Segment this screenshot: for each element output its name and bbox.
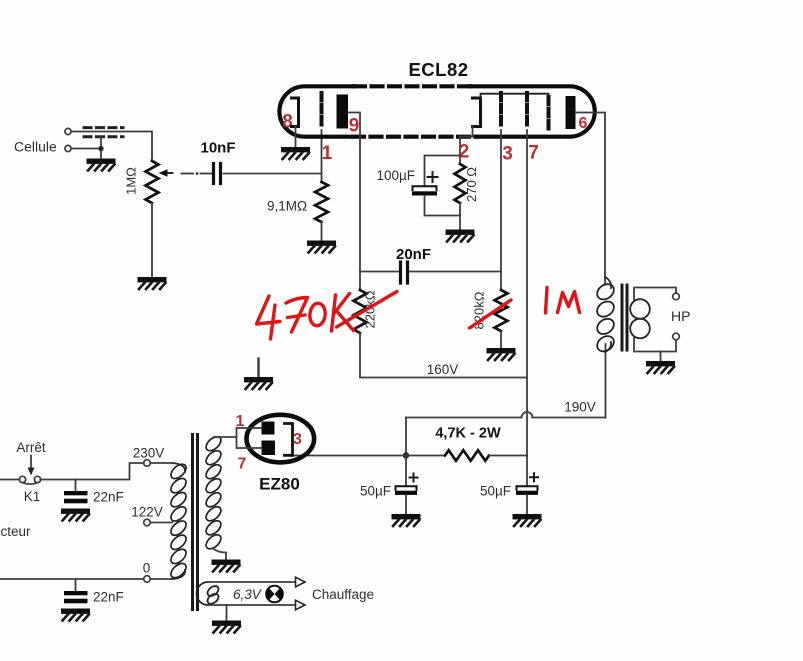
pentode grid g1 dashed [499,93,503,129]
resistor 9,1M zigzag [315,182,328,222]
svg-text:100µF: 100µF [377,168,416,183]
svg-text:9,1MΩ: 9,1MΩ [267,199,307,214]
wire 50uF left to ground [405,495,407,514]
wire pin6 anode lead [576,113,606,285]
svg-text:8: 8 [282,112,293,133]
wire 0 tap to coil [150,578,172,580]
ground 22nF upper [61,509,90,521]
ground input [87,159,116,171]
wire 122V tap to coil [150,522,172,524]
wire pin8 lead [295,127,297,148]
wire 10nF to grid pin1 junction [224,173,322,175]
resistor 820k zigzag [495,290,508,331]
wire wiper dash-dot to 10nF [182,173,194,175]
wire 100uF bottom branch [425,196,461,216]
HP terminal bottom [673,333,680,340]
arrow heater top [296,577,306,587]
svg-text:22nF: 22nF [93,590,124,605]
svg-text:7: 7 [238,456,247,473]
annotation strike through 220k [337,292,398,328]
wire node A vertical [405,418,407,456]
resistor 220k zigzag [354,290,367,333]
pentode grid g2 dashed [525,93,529,129]
triode grid dashed [320,93,324,129]
svg-text:HP: HP [671,308,690,324]
svg-text:4,7K - 2W: 4,7K - 2W [435,426,501,442]
wire node B to 50uF [526,456,528,487]
tap 230V terminal [144,460,151,467]
wire 100uF top branch [425,156,461,186]
wire heater bottom [208,604,296,606]
wire 220k to 160V rail [360,333,527,378]
tube ECL82 envelope [279,86,594,136]
node junction dot [98,146,103,151]
wire pin2 lead [460,127,473,165]
svg-text:190V: 190V [564,400,596,415]
capacitor 50uF right plus [530,473,538,481]
svg-text:EZ80: EZ80 [259,475,300,494]
svg-text:Chauffage: Chauffage [312,587,374,602]
triode cathode [292,98,299,127]
ground 9,1M [307,241,336,253]
ground pot [138,277,167,289]
svg-text:3: 3 [293,431,302,448]
node A junction dot [403,452,409,458]
wire 190V line with crossover hump [406,417,606,419]
potentiometer wiper arrow [159,169,168,177]
annotation 470K handwritten [257,292,398,340]
shield dashed lines [84,126,123,129]
winding 6,3V heater [197,582,221,606]
EZ80 anode plate upper [262,422,275,435]
transformer HT secondary coil [204,434,224,551]
transformer output primary wire down [605,344,607,418]
wire mains top run [40,463,143,480]
wire 20nF left [360,271,399,273]
svg-text:2: 2 [459,142,470,163]
capacitor 50uF left electrolytic [396,486,417,490]
wire pin1 down [321,130,323,182]
svg-text:160V: 160V [427,362,459,377]
ground 820k [487,348,516,360]
svg-text:230V: 230V [133,446,165,461]
svg-text:50µF: 50µF [480,484,511,499]
wire pin3 down [500,130,502,290]
svg-text:7: 7 [528,143,539,164]
svg-text:9: 9 [349,116,360,137]
wire pin9 anode lead [348,113,360,291]
svg-text:K1: K1 [24,489,41,504]
svg-text:ECL82: ECL82 [408,59,468,80]
annotation strike through 820k [470,300,512,328]
capacitor 50uF left plus [410,474,418,482]
svg-text:270 Ω: 270 Ω [464,167,479,202]
wire 270 to ground [459,203,461,230]
wire 9,1M to ground [321,222,323,241]
wire heater ground tap [226,605,228,621]
wire HP ground tap [660,352,662,362]
input terminal top [65,128,71,134]
triode anode [337,95,349,129]
tap 122V terminal [144,519,151,526]
pentode cathode [473,98,481,127]
svg-text:1: 1 [236,413,245,430]
wire 4,7K to node B [489,455,527,457]
wire shield drop [100,137,102,149]
svg-text:10nF: 10nF [200,140,235,157]
HP terminal top [673,293,680,300]
annotation 1M handwritten [470,288,580,329]
capacitor 50uF right electrolytic [517,486,538,490]
lamp indicator [266,586,283,603]
transformer output secondary coil [630,299,650,338]
wire 50uF right to ground [526,495,528,514]
ground 50uF left [392,514,421,526]
wire heater top [208,581,296,583]
wire mains bottom run [0,578,144,580]
wire HT secondary bottom to ground [214,549,227,560]
svg-text:Cellule: Cellule [14,139,57,155]
wire 820k to ground [500,331,502,348]
wire EZ80 anode feed bus [237,428,262,448]
svg-text:50µF: 50µF [360,484,391,499]
wire secondary top to HP [634,288,676,301]
pentode grid g3 dashed [547,97,551,129]
svg-text:1: 1 [322,143,333,164]
ground chassis isolated [257,359,259,378]
wire secondary bottom to HP [634,337,676,352]
capacitor 22nF upper [75,480,77,492]
transformer mains core [191,433,194,611]
wire input bottom [72,149,102,159]
ground 50uF right [513,514,542,526]
capacitor 100uF electrolytic [413,186,437,190]
input terminal bottom [65,145,71,151]
transformer output primary coil [594,277,617,354]
pentode anode [566,96,576,129]
tube EZ80 envelope [246,415,314,463]
ground HT secondary [212,560,241,572]
EZ80 anode plate lower [262,441,276,456]
svg-text:0: 0 [143,561,151,576]
wire 20nF right [410,271,502,273]
svg-text:Arrêt: Arrêt [16,440,46,455]
svg-text:6,3V: 6,3V [233,587,263,602]
ground HP [646,361,675,373]
svg-text:22nF: 22nF [93,490,124,505]
arrow heater bottom [296,600,306,610]
svg-text:1MΩ: 1MΩ [124,167,139,195]
capacitor 22nF lower [75,579,77,591]
wire node A to 50uF [405,456,407,487]
wire pot bottom to ground [151,203,153,277]
wire input top to pot [72,132,153,162]
transformer output core [621,284,624,352]
tap 0 terminal [144,576,151,583]
capacitor 20nF plates [401,262,408,283]
ground heater [212,621,241,633]
pentode internal cathode-g3 tie [481,94,549,98]
wire pin7 screen vertical [526,130,528,456]
transformer mains primary coil [168,462,188,581]
resistor 270 zigzag [455,164,466,203]
svg-text:122V: 122V [131,505,163,520]
resistor 4,7K zigzag [445,450,489,461]
svg-text:3: 3 [502,144,513,165]
wire 230V tap to coil [150,462,172,464]
svg-text:cteur: cteur [1,524,32,539]
capacitor 100uF plus sign [428,172,438,182]
ground 22nF lower [61,609,90,621]
potentiometer 1M zigzag [146,161,159,203]
ground 270 [446,230,475,242]
wire HT secondary top to EZ80 [214,436,237,438]
wire EZ80 cathode to node A [293,455,446,457]
svg-text:6: 6 [579,115,588,132]
switch K1 [0,479,20,481]
EZ80 cathode [285,424,293,456]
ground pin8 [281,147,310,159]
arrow Arret [30,456,32,468]
